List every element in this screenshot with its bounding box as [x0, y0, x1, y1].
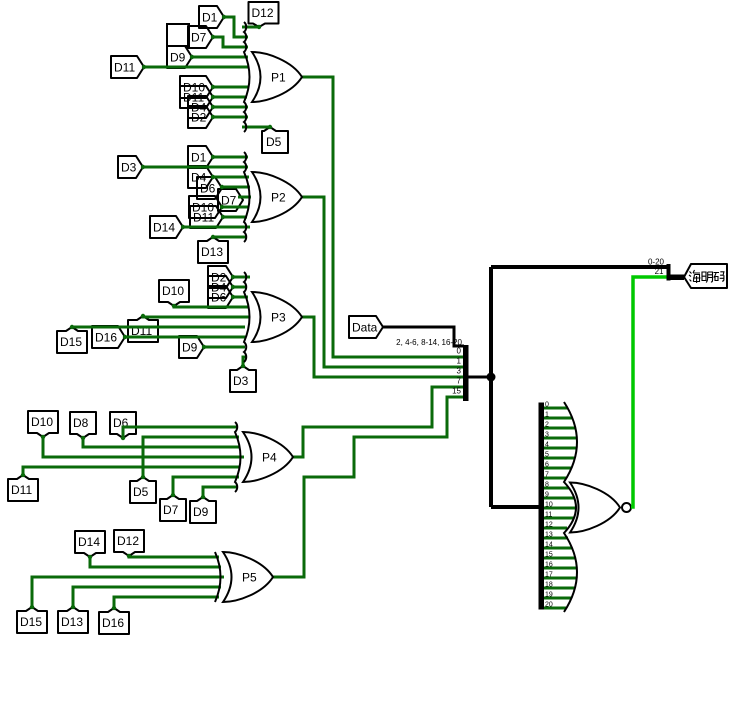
wire D4-P3	[233, 286, 246, 289]
tunnel D3 (P3)	[230, 366, 256, 392]
svg-text:17: 17	[545, 572, 553, 579]
tunnel D10 (P1 stack)	[180, 76, 213, 98]
svg-text:19: 19	[545, 592, 553, 599]
svg-text:P4: P4	[262, 451, 277, 465]
svg-text:18: 18	[545, 582, 553, 589]
wire D8-P4	[83, 438, 240, 447]
wire bus top	[491, 265, 668, 269]
tunnel D11 (P3)	[128, 316, 158, 342]
wire XNOR output	[631, 277, 667, 507]
svg-text:D15: D15	[60, 335, 82, 349]
xnor gate U1 body	[570, 483, 620, 533]
svg-text:21: 21	[655, 267, 664, 276]
svg-text:15: 15	[545, 552, 553, 559]
svg-text:D2: D2	[191, 111, 207, 125]
wire D1-P2	[213, 156, 248, 159]
svg-text:2, 4-6, 8-14, 16-20: 2, 4-6, 8-14, 16-20	[396, 338, 462, 347]
svg-text:16: 16	[545, 562, 553, 569]
tunnel D3 (P2)	[118, 156, 143, 178]
svg-text:D11: D11	[114, 61, 135, 75]
tunnel D4 (P1 stack)	[188, 96, 213, 118]
tunnel D1 (P1)	[199, 6, 224, 28]
svg-text:4: 4	[545, 442, 549, 449]
wire D5-P1	[242, 126, 270, 129]
svg-text:D7: D7	[163, 503, 179, 517]
svg-text:0: 0	[545, 402, 549, 409]
wire D10-P4	[43, 437, 244, 457]
svg-text:D15: D15	[20, 615, 42, 629]
svg-text:D3: D3	[233, 374, 249, 388]
xor gate P1	[244, 22, 302, 132]
svg-text:D9: D9	[182, 341, 198, 355]
xnor gate U1 wing	[564, 402, 577, 612]
wire D14-P5	[90, 557, 221, 567]
svg-text:D10: D10	[31, 415, 53, 429]
tunnel D2 (P1 stack)	[188, 106, 213, 128]
wire D4-P2	[213, 176, 249, 179]
tunnel D4 (P2)	[188, 166, 213, 188]
svg-text:12: 12	[545, 522, 553, 529]
tunnel 海明码 (output)	[684, 264, 727, 288]
wire P1 output to splitter bit0	[302, 77, 463, 357]
tunnel D10 (P3)	[159, 280, 189, 306]
svg-text:7: 7	[545, 472, 549, 479]
svg-text:0: 0	[457, 347, 462, 356]
svg-text:1: 1	[457, 357, 462, 366]
svg-text:D5: D5	[266, 135, 282, 149]
splitter S2 bar	[539, 403, 545, 610]
tunnel D5 (P1)	[262, 127, 288, 153]
xor gate P5	[215, 552, 273, 602]
wire D12-P5	[129, 556, 219, 557]
svg-text:D3: D3	[121, 161, 137, 175]
svg-text:5: 5	[545, 452, 549, 459]
tunnel D9 (P1)	[167, 46, 192, 68]
tunnel D12 (P5)	[114, 530, 144, 556]
wire D11-P1	[144, 66, 249, 69]
svg-text:14: 14	[545, 542, 553, 549]
tunnel D5 (P4)	[130, 477, 156, 503]
splitter S1 bar	[463, 345, 469, 401]
wire D11-P2	[223, 216, 247, 219]
wire D3-P2	[143, 166, 248, 169]
svg-text:13: 13	[545, 532, 553, 539]
tunnel D11 (P2)	[190, 206, 223, 228]
wire D2-P3	[233, 276, 250, 279]
wire D9-P1	[192, 56, 248, 59]
wire bus vertical	[489, 267, 493, 507]
wire D10-P2	[222, 206, 248, 209]
tunnel D6 (P2)	[197, 177, 222, 199]
svg-text:D9: D9	[193, 505, 209, 519]
svg-text:D9: D9	[170, 51, 186, 65]
svg-text:D16: D16	[102, 616, 124, 630]
tunnel D16 (P5)	[99, 608, 129, 634]
wire P5 output to splitter bit15	[273, 397, 463, 577]
wire D12-P1	[242, 26, 259, 29]
xor gate P3	[244, 272, 302, 362]
junction node	[487, 373, 496, 382]
wire D3-P3	[243, 357, 247, 366]
tunnel D7 (P4)	[160, 495, 186, 521]
wire D16-P5	[114, 597, 219, 608]
wire D11b-P1	[213, 96, 247, 99]
wire D9-P4	[203, 487, 238, 497]
tunnel D9 (P3)	[179, 336, 204, 358]
wire D7-P2	[238, 196, 251, 199]
svg-text:D14: D14	[78, 535, 100, 549]
svg-text:D8: D8	[73, 416, 89, 430]
wire D15-P5	[32, 577, 224, 607]
svg-text:D14: D14	[153, 221, 175, 235]
wire D13-P5	[73, 587, 221, 607]
svg-text:P1: P1	[271, 71, 286, 85]
svg-text:3: 3	[545, 432, 549, 439]
wire D7-P1	[213, 37, 248, 47]
tunnel (unlabeled, behind D7/D9)	[167, 24, 189, 46]
tunnel D15 (P5)	[17, 607, 47, 633]
tunnel D13 (P2)	[198, 237, 228, 263]
wire P2 output to splitter bit1	[302, 197, 463, 367]
splitter S1 spine	[468, 376, 491, 379]
tunnel D15 (P3)	[57, 327, 87, 353]
svg-text:P3: P3	[271, 311, 286, 325]
svg-text:11: 11	[545, 512, 552, 519]
tunnel D16 (P3)	[92, 326, 125, 348]
tunnel D6 (P3 stack)	[208, 286, 233, 308]
wire D7-P4	[173, 477, 239, 495]
svg-text:D1: D1	[191, 151, 207, 165]
wire D4-P1	[213, 106, 248, 109]
tunnel Data	[349, 316, 383, 338]
svg-text:D7: D7	[191, 31, 207, 45]
svg-text:D1: D1	[202, 11, 218, 25]
tunnel D11 (P4)	[8, 475, 38, 501]
tunnel D14 (P2)	[150, 216, 183, 238]
svg-text:Data: Data	[352, 321, 378, 335]
svg-text:P5: P5	[242, 571, 257, 585]
tunnel D11 (P1 stack)	[180, 86, 213, 108]
svg-text:1: 1	[545, 412, 549, 419]
wire D10-P3	[174, 306, 249, 307]
wire D2-P1	[213, 116, 248, 119]
svg-text:D13: D13	[201, 245, 223, 259]
svg-text:D12: D12	[252, 6, 274, 20]
wire D16-P3	[125, 336, 246, 339]
svg-text:P2: P2	[271, 191, 286, 205]
xor gate P4	[235, 422, 293, 492]
wire endpoint dots	[21, 15, 272, 610]
wire D6-P2	[222, 186, 250, 189]
tunnel D13 (P5)	[58, 607, 88, 633]
wire D13-P2	[213, 236, 247, 239]
splitter S3 bar	[667, 264, 671, 281]
wire D11-P3	[143, 316, 250, 317]
svg-text:D5: D5	[133, 485, 149, 499]
tunnel D1 (P2)	[188, 146, 213, 168]
svg-text:7: 7	[457, 377, 462, 386]
svg-text:8: 8	[545, 482, 549, 489]
tunnel D10 (P4)	[28, 411, 58, 437]
wire D9-P3	[204, 346, 245, 349]
wire D5-P4	[143, 437, 239, 477]
xor gate P2	[244, 152, 302, 242]
tunnel D9 (P4)	[190, 497, 216, 523]
wire bus to fanout splitter	[491, 505, 539, 509]
splitter S2 legs 0-20	[544, 402, 577, 609]
svg-text:D6: D6	[211, 291, 227, 305]
svg-text:0-20: 0-20	[648, 258, 665, 267]
svg-text:D10: D10	[162, 284, 184, 298]
svg-text:D11: D11	[11, 483, 32, 497]
tunnel D8 (P4)	[70, 412, 96, 438]
splitter S3 spine	[668, 275, 684, 281]
wire P3 output to splitter bit3	[302, 317, 463, 377]
tunnel D11 (P1)	[111, 56, 144, 78]
svg-text:D13: D13	[61, 615, 83, 629]
tunnel D6 (P4)	[110, 412, 136, 438]
wire P4 output to splitter bit7	[293, 387, 463, 457]
svg-text:6: 6	[545, 462, 549, 469]
svg-text:10: 10	[545, 502, 553, 509]
tunnel D10 (P2)	[189, 196, 222, 218]
svg-text:2: 2	[545, 422, 549, 429]
tunnel D4 (P3 stack)	[208, 276, 233, 298]
svg-text:3: 3	[457, 367, 462, 376]
svg-text:20: 20	[545, 602, 553, 609]
wire D6-P3	[233, 296, 248, 299]
wire D1-P1	[224, 17, 248, 37]
svg-text:D16: D16	[95, 331, 117, 345]
wire D11-P4	[23, 467, 240, 475]
wire Data bus to splitter	[383, 327, 464, 346]
tunnel D14 (P5)	[75, 531, 105, 557]
tunnel D7 (P2)	[218, 189, 243, 211]
wire D14-P2	[183, 226, 250, 229]
wire D15-P3	[72, 326, 245, 329]
wire D6-P4	[123, 427, 238, 438]
svg-text:D11: D11	[193, 211, 214, 225]
tunnel D2 (P3 stack)	[208, 266, 233, 288]
wire D10-P1	[213, 86, 249, 89]
svg-text:9: 9	[545, 492, 549, 499]
svg-text:D6: D6	[200, 182, 216, 196]
tunnel D12 (P1)	[249, 2, 279, 27]
svg-text:15: 15	[452, 387, 461, 396]
svg-text:D12: D12	[117, 534, 139, 548]
tunnel D7 (P1)	[188, 26, 213, 48]
